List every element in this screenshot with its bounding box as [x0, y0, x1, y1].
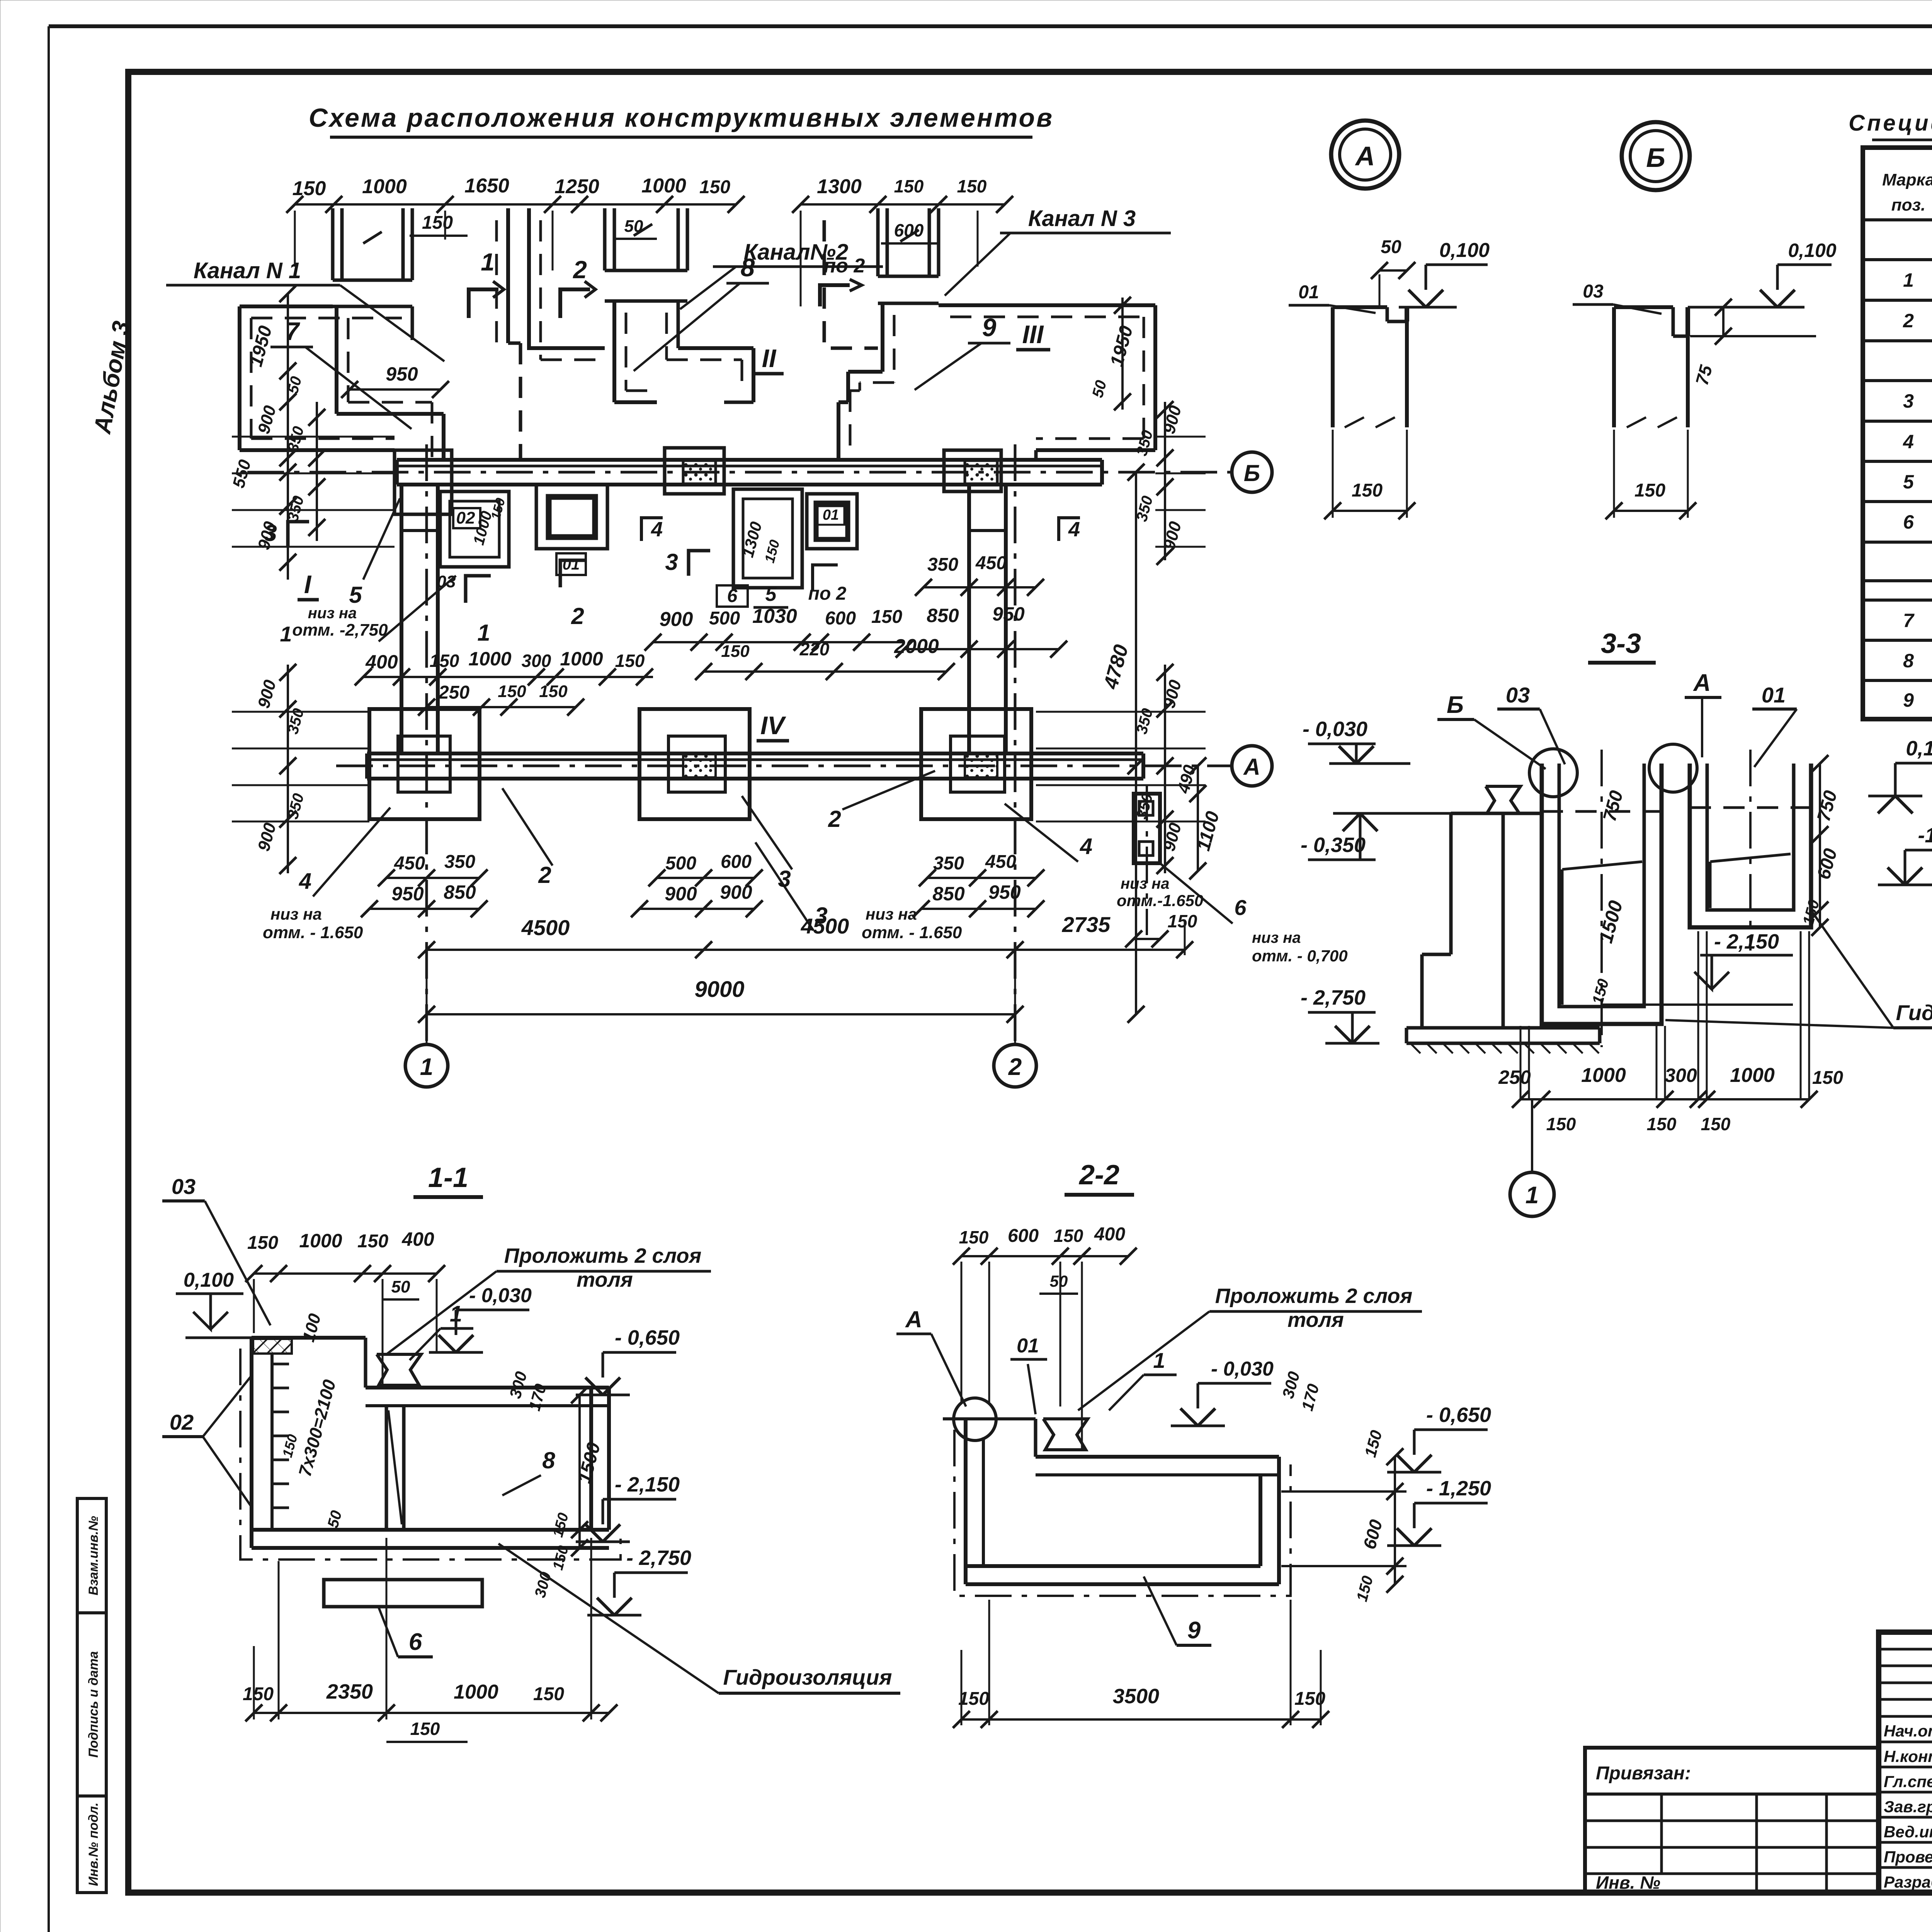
svg-text:А: А [1243, 754, 1260, 780]
svg-text:1250: 1250 [554, 175, 599, 198]
svg-text:4500: 4500 [801, 914, 849, 938]
svg-text:1300: 1300 [817, 175, 862, 198]
svg-text:1: 1 [1153, 1348, 1165, 1372]
svg-text:- 0,350: - 0,350 [1301, 833, 1366, 857]
svg-text:220: 220 [799, 639, 830, 659]
svg-text:отм.-1.650: отм.-1.650 [1117, 891, 1203, 910]
svg-text:900: 900 [660, 608, 693, 631]
svg-text:- 0,650: - 0,650 [615, 1326, 680, 1349]
svg-text:8: 8 [1903, 650, 1914, 672]
svg-text:950: 950 [988, 881, 1021, 903]
svg-text:1000: 1000 [1581, 1064, 1626, 1087]
svg-text:-1,250: -1,250 [1918, 824, 1932, 847]
svg-text:6: 6 [409, 1629, 422, 1655]
svg-text:02: 02 [170, 1410, 194, 1434]
svg-text:5: 5 [349, 582, 362, 608]
svg-text:03: 03 [1583, 281, 1604, 302]
svg-text:- 0,030: - 0,030 [469, 1284, 532, 1307]
svg-text:350: 350 [444, 852, 475, 872]
svg-text:0,100: 0,100 [1906, 737, 1932, 760]
svg-text:150: 150 [539, 682, 568, 701]
svg-text:низ на: низ на [270, 905, 322, 923]
svg-text:950: 950 [992, 603, 1025, 625]
svg-text:1: 1 [481, 248, 495, 276]
svg-text:по 2: по 2 [824, 255, 865, 277]
svg-text:8: 8 [741, 253, 755, 282]
svg-text:- 2,750: - 2,750 [1301, 986, 1366, 1009]
svg-text:6: 6 [1903, 511, 1914, 533]
svg-text:1000: 1000 [454, 1681, 498, 1703]
svg-text:1000: 1000 [299, 1230, 342, 1252]
svg-text:0,100: 0,100 [1439, 239, 1490, 262]
svg-text:4: 4 [1068, 518, 1080, 541]
svg-text:А: А [1693, 670, 1711, 696]
svg-text:- 0,650: - 0,650 [1426, 1403, 1491, 1427]
svg-text:1: 1 [1526, 1182, 1539, 1209]
svg-text:1: 1 [280, 622, 292, 646]
svg-text:IV: IV [760, 711, 786, 740]
svg-text:Гл.спец.: Гл.спец. [1884, 1772, 1932, 1791]
svg-text:01: 01 [1762, 683, 1786, 707]
svg-text:Марка: Марка [1882, 170, 1932, 189]
svg-text:- 2,750: - 2,750 [626, 1546, 691, 1570]
svg-text:2: 2 [828, 806, 841, 832]
svg-text:150: 150 [1352, 480, 1383, 501]
svg-text:400: 400 [1094, 1224, 1125, 1245]
svg-text:600: 600 [825, 608, 856, 629]
svg-text:150: 150 [958, 1689, 989, 1709]
svg-text:9: 9 [1903, 689, 1914, 711]
svg-text:150: 150 [533, 1684, 564, 1704]
svg-text:низ на: низ на [308, 605, 357, 622]
svg-text:1-1: 1-1 [428, 1162, 468, 1193]
svg-text:- 1,250: - 1,250 [1426, 1477, 1491, 1500]
svg-text:2: 2 [571, 603, 584, 629]
svg-text:500: 500 [665, 853, 696, 874]
svg-text:Проложить 2 слоя: Проложить 2 слоя [504, 1244, 702, 1267]
svg-text:0,100: 0,100 [184, 1269, 234, 1291]
svg-text:3: 3 [1903, 390, 1914, 412]
svg-text:8: 8 [542, 1447, 555, 1473]
svg-text:1650: 1650 [464, 175, 509, 197]
svg-text:150: 150 [1812, 1068, 1843, 1088]
svg-text:150: 150 [1546, 1114, 1576, 1134]
svg-text:I: I [304, 570, 312, 599]
svg-text:2: 2 [1903, 310, 1914, 332]
svg-text:1000: 1000 [560, 648, 603, 670]
svg-text:7: 7 [1903, 610, 1915, 631]
svg-text:2: 2 [573, 256, 587, 284]
svg-text:Привязан:: Привязан: [1596, 1763, 1691, 1784]
svg-text:250: 250 [1498, 1066, 1531, 1088]
svg-text:0,100: 0,100 [1788, 240, 1836, 261]
svg-text:Нач.отд: Нач.отд [1884, 1722, 1932, 1740]
svg-text:2350: 2350 [326, 1680, 373, 1703]
svg-text:450: 450 [975, 553, 1007, 573]
svg-text:150: 150 [293, 177, 326, 200]
svg-text:Канал N 1: Канал N 1 [194, 258, 301, 283]
svg-text:5: 5 [1903, 471, 1914, 493]
svg-text:Схема расположения конструктив: Схема расположения конструктивных элемен… [309, 103, 1054, 133]
svg-text:150: 150 [699, 177, 730, 197]
svg-text:1: 1 [1903, 269, 1914, 291]
svg-text:500: 500 [709, 608, 740, 629]
svg-text:низ на: низ на [1121, 875, 1170, 892]
svg-text:Взам.инв.№: Взам.инв.№ [86, 1516, 101, 1595]
svg-text:- 2,150: - 2,150 [615, 1473, 680, 1496]
svg-text:низ на: низ на [1252, 929, 1301, 946]
svg-text:Канал N 3: Канал N 3 [1028, 206, 1136, 231]
svg-text:2735: 2735 [1062, 912, 1111, 937]
svg-text:Проложить 2 слоя: Проложить 2 слоя [1215, 1284, 1413, 1308]
svg-text:- 0,030: - 0,030 [1211, 1358, 1274, 1380]
svg-text:4: 4 [1080, 834, 1092, 859]
svg-text:4: 4 [651, 518, 663, 541]
svg-text:900: 900 [720, 881, 752, 903]
svg-text:А: А [905, 1306, 922, 1332]
svg-text:900: 900 [665, 883, 697, 905]
svg-text:950: 950 [391, 883, 424, 905]
svg-text:Подпись и дата: Подпись и дата [86, 1651, 101, 1758]
svg-text:1000: 1000 [362, 175, 407, 198]
svg-text:1000: 1000 [468, 648, 511, 670]
svg-text:03: 03 [1506, 683, 1530, 707]
svg-text:4: 4 [299, 869, 311, 894]
svg-text:150: 150 [957, 176, 987, 196]
svg-text:Инв. №: Инв. № [1596, 1872, 1660, 1893]
svg-text:150: 150 [721, 642, 750, 661]
svg-text:III: III [1022, 320, 1044, 349]
svg-text:Б: Б [1244, 460, 1260, 486]
svg-text:150: 150 [959, 1227, 989, 1247]
svg-text:350: 350 [933, 853, 964, 874]
svg-text:150: 150 [422, 213, 453, 233]
svg-text:5: 5 [765, 583, 777, 605]
svg-text:450: 450 [985, 852, 1016, 872]
svg-text:3: 3 [665, 549, 678, 575]
svg-text:низ на: низ на [866, 905, 917, 923]
svg-text:950: 950 [386, 363, 418, 385]
svg-text:Разраб: Разраб [1884, 1873, 1932, 1891]
svg-text:отм. -2,750: отм. -2,750 [292, 621, 388, 639]
svg-text:1000: 1000 [1730, 1064, 1775, 1087]
svg-text:50: 50 [1381, 237, 1401, 257]
svg-text:Гидроизоляция: Гидроизоляция [1896, 1000, 1932, 1025]
svg-text:Н.контр.: Н.контр. [1884, 1747, 1932, 1765]
svg-text:600: 600 [721, 852, 752, 872]
svg-text:150: 150 [1701, 1114, 1731, 1134]
svg-text:4: 4 [1903, 431, 1914, 452]
svg-text:3-3: 3-3 [1601, 628, 1641, 659]
svg-text:01: 01 [823, 507, 839, 523]
svg-text:600: 600 [1008, 1226, 1039, 1246]
svg-text:Б: Б [1447, 692, 1464, 718]
svg-text:2-2: 2-2 [1078, 1160, 1119, 1190]
svg-text:4500: 4500 [521, 915, 570, 940]
svg-text:150: 150 [1168, 911, 1197, 931]
svg-text:II: II [762, 344, 777, 372]
svg-text:1: 1 [420, 1054, 433, 1080]
svg-text:Зав.гр.: Зав.гр. [1884, 1798, 1932, 1816]
svg-text:9000: 9000 [694, 977, 744, 1002]
svg-text:150: 150 [357, 1231, 388, 1252]
svg-text:350: 350 [927, 554, 958, 575]
svg-text:150: 150 [1647, 1114, 1677, 1134]
svg-text:50: 50 [1050, 1272, 1068, 1290]
svg-text:150: 150 [871, 607, 902, 627]
svg-text:2: 2 [1008, 1054, 1022, 1080]
svg-text:отм. - 1.650: отм. - 1.650 [862, 923, 962, 942]
svg-text:150: 150 [1054, 1226, 1083, 1246]
svg-text:600: 600 [894, 220, 924, 240]
svg-text:9: 9 [1187, 1617, 1201, 1644]
svg-text:150: 150 [1634, 480, 1665, 501]
svg-text:50: 50 [624, 217, 643, 236]
svg-text:150: 150 [243, 1684, 274, 1704]
svg-text:- 2,150: - 2,150 [1714, 930, 1779, 953]
svg-text:отм. - 0,700: отм. - 0,700 [1252, 947, 1348, 965]
svg-text:300: 300 [522, 651, 551, 671]
svg-text:01: 01 [1017, 1335, 1039, 1357]
svg-text:1: 1 [477, 620, 490, 646]
svg-text:6: 6 [1234, 895, 1247, 920]
svg-text:Инв.№ подл.: Инв.№ подл. [86, 1803, 101, 1886]
svg-text:Гидроизоляция: Гидроизоляция [723, 1665, 892, 1689]
svg-text:поз.: поз. [1891, 196, 1925, 214]
svg-text:850: 850 [932, 883, 965, 905]
svg-text:- 0,030: - 0,030 [1303, 718, 1367, 741]
svg-text:150: 150 [430, 651, 459, 671]
svg-text:300: 300 [1665, 1065, 1697, 1086]
svg-text:150: 150 [247, 1233, 278, 1253]
svg-text:03: 03 [172, 1174, 196, 1199]
svg-text:отм. - 1.650: отм. - 1.650 [263, 923, 363, 942]
svg-text:150: 150 [894, 176, 924, 196]
svg-text:3500: 3500 [1113, 1685, 1159, 1708]
svg-text:1000: 1000 [641, 175, 686, 197]
svg-text:02: 02 [456, 509, 475, 527]
svg-text:400: 400 [401, 1228, 434, 1250]
svg-text:150: 150 [615, 651, 645, 671]
svg-text:А: А [1355, 141, 1375, 171]
svg-text:Провер.: Провер. [1884, 1848, 1932, 1866]
svg-text:Б: Б [1646, 143, 1665, 173]
svg-text:3: 3 [778, 866, 791, 892]
svg-text:150: 150 [498, 682, 526, 701]
svg-text:250: 250 [438, 682, 469, 703]
svg-text:2: 2 [538, 862, 551, 888]
svg-text:Вед.ин.: Вед.ин. [1884, 1823, 1932, 1841]
svg-text:450: 450 [394, 853, 425, 874]
svg-text:Спецификация к схеме расположе: Спецификация к схеме расположения констр… [1849, 111, 1932, 136]
svg-text:850: 850 [927, 605, 959, 626]
svg-text:150: 150 [410, 1719, 440, 1739]
svg-text:50: 50 [391, 1277, 410, 1296]
svg-text:9: 9 [982, 313, 997, 342]
svg-text:1030: 1030 [752, 605, 797, 628]
svg-text:6: 6 [727, 586, 738, 606]
svg-text:850: 850 [444, 881, 476, 903]
svg-text:01: 01 [1298, 282, 1319, 303]
